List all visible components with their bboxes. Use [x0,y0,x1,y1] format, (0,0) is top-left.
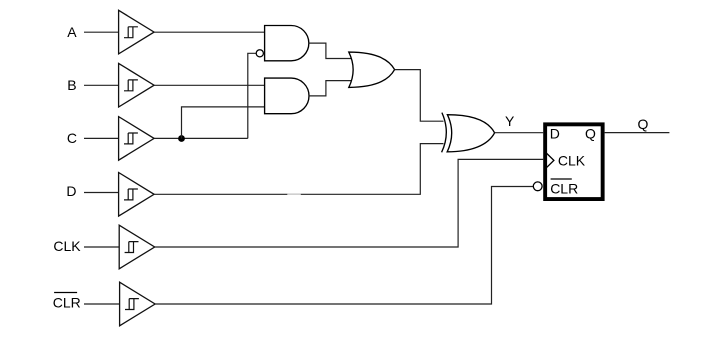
wire Y: XOR output to flip-flop D [495,132,544,134]
G1 input inverter bubble [256,50,263,57]
wire G1 output to OR upper input [309,43,353,58]
svg-text:D: D [550,126,560,142]
wire A input [84,31,119,33]
svg-text:CLR: CLR [550,181,578,197]
wire CLR input [84,303,120,305]
AND gate G1 (A AND NOT C) [265,26,309,61]
svg-text:D: D [66,183,76,199]
XOR gate G4 [442,113,495,153]
schmitt buffer U1 (input A) [119,10,155,54]
svg-text:C: C [67,130,77,146]
svg-text:A: A [67,24,77,40]
wire OR output to XOR upper input [395,70,444,122]
flip-flop CLR inverter bubble [533,182,542,191]
AND gate G2 (B AND C) [265,78,309,114]
svg-text:CLK: CLK [558,153,586,169]
flip-flop CLR overline [551,178,572,180]
wire A buffer output to G1 [154,31,265,33]
wire C input [84,137,119,139]
svg-text:Q: Q [585,126,596,142]
wire B buffer output to G2 [154,84,265,86]
wire D faint overlap segment [287,193,301,195]
svg-text:Y: Y [505,113,515,129]
wire CLK buffer output to flip-flop CLK [155,159,544,247]
wire C branch up to G2 lower input [182,107,265,139]
wire D buffer output to XOR lower input [154,144,443,195]
svg-text:B: B [67,77,76,93]
D flip-flop U7 body [545,124,603,199]
wire C buffer output [154,137,248,139]
wire D input [84,192,119,194]
wire C up to G1 inverted input [248,53,256,138]
flip-flop clock edge triangle [546,153,554,168]
schmitt buffer U6 (input CLR) [120,282,156,326]
svg-text:CLR: CLR [53,295,81,311]
node C junction dot [178,135,185,142]
svg-text:Q: Q [637,116,648,132]
node CLR label overline [54,292,77,294]
wire G2 output to OR lower input [309,81,353,96]
schmitt buffer U2 (input B) [119,63,155,107]
schmitt buffer U4 (input D) [119,173,155,217]
OR gate G3 [349,52,395,87]
wire B input [84,84,119,86]
svg-text:CLK: CLK [53,238,81,254]
wire CLK input [84,246,119,248]
schmitt buffer U5 (input CLK) [119,225,155,269]
schmitt buffer U3 (input C) [119,117,155,161]
wire CLR buffer output to flip-flop CLR bubble [155,187,533,305]
wire Q output [605,132,670,134]
